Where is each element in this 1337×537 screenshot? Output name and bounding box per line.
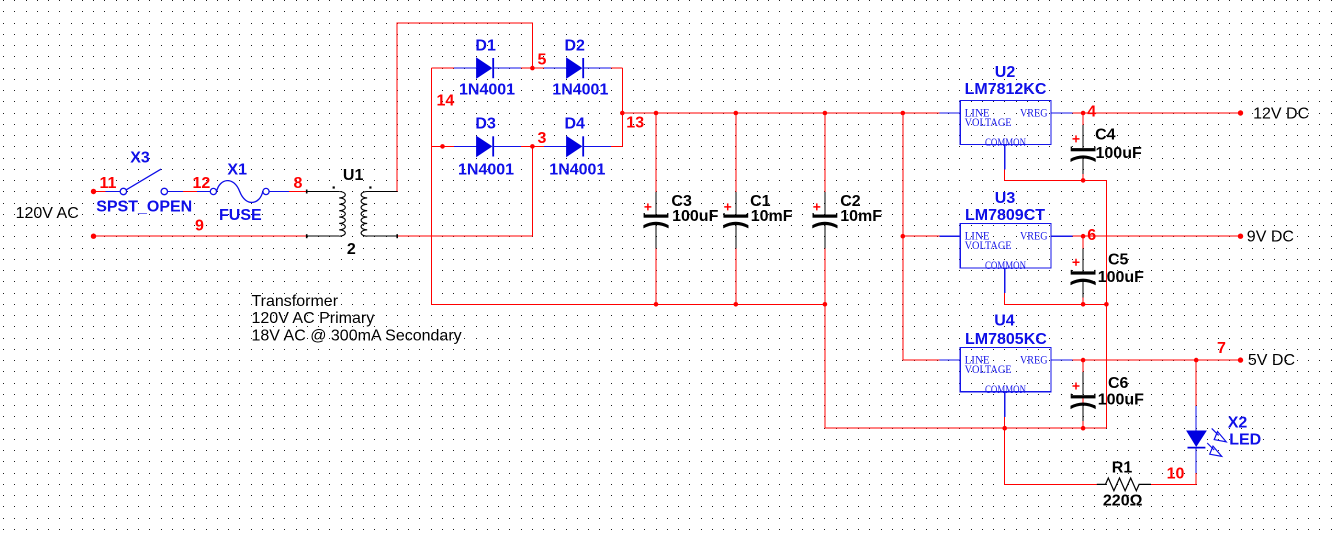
terminal: 120V AC hot bbox=[91, 189, 96, 194]
wire: transformer secondary bottom to node 3 bbox=[397, 146, 532, 236]
svg-text:12: 12 bbox=[193, 175, 211, 192]
svg-text:FUSE: FUSE bbox=[219, 207, 262, 224]
wire: U3 output to 9V DC terminal (net 6) bbox=[1073, 235, 1241, 237]
svg-text:U4: U4 bbox=[994, 313, 1015, 330]
svg-text:10mF: 10mF bbox=[840, 208, 882, 225]
regulator U2 LM7812KC box bbox=[940, 100, 1073, 169]
capacitor C6 100uF bbox=[1071, 372, 1096, 421]
terminal: 12V DC output bbox=[1238, 110, 1243, 115]
node 6 junction bbox=[1081, 234, 1086, 239]
wire: D3 anode stub red bbox=[431, 145, 454, 147]
diode D1 1N4001 bbox=[454, 57, 521, 79]
wire: R1 right to LED cathode (net 10) bbox=[1151, 473, 1196, 484]
capacitor C4 100uF bbox=[1071, 125, 1096, 174]
wire: D2 cathode to right vertical bbox=[611, 67, 622, 69]
wire: bottom ground run from C2 leg bbox=[825, 304, 1107, 428]
pin names of U4 bbox=[965, 355, 1048, 397]
node: C4 bottom junction bbox=[1081, 178, 1086, 183]
wire: switch to fuse bbox=[183, 191, 197, 193]
svg-text:14: 14 bbox=[437, 93, 455, 110]
wire: top DC bus node 13 to U2 input bbox=[622, 112, 939, 114]
svg-text:D3: D3 bbox=[475, 116, 496, 133]
wire: node 5 segment between D1 and D2 bbox=[521, 67, 544, 69]
wire: C6 top stub bbox=[1082, 360, 1084, 372]
wire: C2 bottom to ground bus bbox=[824, 248, 826, 304]
svg-text:VOLTAGE: VOLTAGE bbox=[965, 240, 1012, 252]
svg-text:R1: R1 bbox=[1112, 459, 1133, 476]
wire: U2 output to 12V DC terminal (net 4) bbox=[1073, 112, 1241, 114]
svg-text:LM7812KC: LM7812KC bbox=[965, 81, 1047, 98]
svg-text:D2: D2 bbox=[565, 38, 586, 55]
wire: C5 bottom stub bbox=[1082, 298, 1084, 305]
node: LED branch junction on 5V line bbox=[1194, 358, 1199, 363]
resistor R1 220 ohm bbox=[1097, 478, 1151, 491]
svg-text:COMMON: COMMON bbox=[985, 137, 1027, 149]
node: U4 common junction on ground run bbox=[1002, 426, 1007, 431]
node: C2 top junction bbox=[823, 111, 828, 116]
wire: node 3 segment between D3 and D4 bbox=[521, 145, 544, 147]
pin names of U3 bbox=[965, 231, 1048, 273]
svg-text:8: 8 bbox=[294, 175, 303, 192]
svg-text:VOLTAGE: VOLTAGE bbox=[965, 117, 1012, 129]
node 13 junction bbox=[620, 111, 625, 116]
wire: rail branch to U3 input bbox=[903, 235, 940, 237]
wire: C3 bottom to ground bus bbox=[655, 248, 657, 304]
svg-text:LED: LED bbox=[1229, 432, 1261, 449]
svg-text:220Ω: 220Ω bbox=[1103, 493, 1143, 510]
capacitor C5 100uF bbox=[1071, 248, 1096, 297]
svg-text:100uF: 100uF bbox=[1098, 269, 1144, 286]
svg-text:5V DC: 5V DC bbox=[1248, 352, 1295, 369]
svg-text:1N4001: 1N4001 bbox=[549, 162, 605, 179]
node: rail tee at top bus bbox=[901, 111, 906, 116]
svg-text:C6: C6 bbox=[1108, 375, 1129, 392]
wire: C4 bottom stub bbox=[1082, 174, 1084, 180]
svg-text:U3: U3 bbox=[995, 190, 1016, 207]
svg-text:9: 9 bbox=[195, 218, 204, 235]
diode D4 1N4001 bbox=[544, 136, 611, 158]
capacitor C2 10mF bbox=[812, 192, 837, 248]
node: C1 top junction bbox=[734, 111, 739, 116]
wire: D4 cathode to right vertical bbox=[611, 145, 622, 147]
svg-text:SPST_OPEN: SPST_OPEN bbox=[96, 199, 192, 216]
svg-text:D4: D4 bbox=[565, 116, 586, 133]
svg-text:4: 4 bbox=[1087, 104, 1096, 121]
pin names of U2 bbox=[965, 107, 1048, 149]
svg-text:1N4001: 1N4001 bbox=[459, 82, 515, 99]
node 4 junction bbox=[1081, 111, 1086, 116]
terminal: 9V DC output bbox=[1238, 234, 1243, 239]
svg-text:X1: X1 bbox=[227, 162, 247, 179]
svg-text:COMMON: COMMON bbox=[985, 260, 1027, 272]
wire: C5 top stub bbox=[1082, 236, 1084, 248]
wire: D1 anode stub red bbox=[431, 67, 454, 69]
svg-text:13: 13 bbox=[626, 114, 644, 131]
capacitor C1 10mF bbox=[723, 192, 748, 248]
svg-text:100uF: 100uF bbox=[1098, 391, 1144, 408]
svg-text:COMMON: COMMON bbox=[985, 384, 1027, 396]
node: rail tee at U3 input bbox=[901, 234, 906, 239]
diode D2 1N4001 bbox=[544, 57, 611, 79]
svg-text:1N4001: 1N4001 bbox=[458, 162, 514, 179]
svg-text:VOLTAGE: VOLTAGE bbox=[965, 364, 1012, 376]
wire: bridge right vertical through node 13 bbox=[621, 68, 623, 146]
svg-text:6: 6 bbox=[1087, 227, 1096, 244]
svg-text:C5: C5 bbox=[1108, 251, 1129, 268]
wire: U4 output to 5V DC terminal (net 7) bbox=[1073, 359, 1241, 361]
svg-text:Transformer: Transformer bbox=[252, 293, 339, 310]
node: C1 bottom junction bbox=[734, 302, 739, 307]
wire: AC hot from source terminal to switch bbox=[94, 191, 106, 193]
svg-text:2: 2 bbox=[347, 241, 356, 258]
node 3 junction bbox=[530, 144, 535, 149]
wire: U2 common run and ground vertical bbox=[1005, 170, 1107, 429]
node: C3 top junction bbox=[654, 111, 659, 116]
wire: C1 top drop bbox=[735, 113, 737, 192]
node: C2 bottom junction bbox=[823, 302, 828, 307]
wire: U3 common run to ground vertical bbox=[1005, 293, 1107, 304]
svg-text:VREG: VREG bbox=[1020, 355, 1048, 367]
wire: fuse to transformer primary top (net 8) bbox=[289, 191, 307, 193]
wire: transformer secondary top up and over to node 5 bbox=[397, 23, 532, 191]
svg-text:3: 3 bbox=[538, 130, 547, 147]
svg-text:C4: C4 bbox=[1095, 126, 1116, 143]
regulator U4 LM7805KC box bbox=[940, 348, 1073, 417]
node: C3 bottom junction bbox=[654, 302, 659, 307]
wire: C6 bottom stub bbox=[1082, 398, 1084, 428]
svg-text:7: 7 bbox=[1217, 340, 1226, 357]
wire: U4 common stub to bottom ground run bbox=[1004, 417, 1006, 428]
svg-text:X2: X2 bbox=[1228, 415, 1248, 432]
svg-text:U1: U1 bbox=[343, 167, 364, 184]
switch X3 SPST_OPEN bbox=[105, 169, 182, 195]
node 7 junction bbox=[1081, 358, 1086, 363]
svg-text:11: 11 bbox=[100, 175, 117, 192]
svg-text:18V AC @ 300mA Secondary: 18V AC @ 300mA Secondary bbox=[252, 328, 462, 345]
svg-text:LM7805KC: LM7805KC bbox=[965, 331, 1047, 348]
svg-text:100uF: 100uF bbox=[672, 208, 718, 225]
wire: node 14 vertical and mid ground bus to C2 bbox=[431, 68, 825, 304]
terminal: 120V AC neutral bbox=[91, 234, 96, 239]
node: C6 bottom junction bbox=[1081, 426, 1086, 431]
svg-text:VREG: VREG bbox=[1020, 107, 1048, 119]
svg-text:10: 10 bbox=[1167, 466, 1185, 483]
svg-text:LM7809CT: LM7809CT bbox=[965, 207, 1045, 224]
wire: AC neutral bottom run (net 9) bbox=[94, 235, 307, 237]
node: junction on D3 anode wire bbox=[440, 144, 445, 149]
wire: R1 left leg from ground run bbox=[1005, 428, 1097, 484]
svg-text:120V AC Primary: 120V AC Primary bbox=[252, 310, 375, 327]
LED X2 bbox=[1186, 406, 1226, 473]
regulator U3 LM7809CT box bbox=[940, 224, 1073, 293]
wire: C2 top drop bbox=[824, 113, 826, 192]
svg-text:100uF: 100uF bbox=[1096, 145, 1142, 162]
transformer U1 bbox=[307, 186, 398, 238]
svg-text:120V AC: 120V AC bbox=[16, 205, 79, 222]
diode D3 1N4001 bbox=[454, 136, 521, 158]
wire: C4 top stub bbox=[1082, 113, 1084, 125]
svg-text:U2: U2 bbox=[995, 64, 1016, 81]
wire: LED anode drop from 5V line bbox=[1195, 360, 1197, 406]
node: C5 bottom junction bbox=[1081, 302, 1086, 307]
svg-text:10mF: 10mF bbox=[751, 208, 793, 225]
svg-text:VREG: VREG bbox=[1020, 231, 1048, 243]
svg-text:1N4001: 1N4001 bbox=[552, 82, 608, 99]
node 5 junction bbox=[530, 66, 535, 71]
fuse X1 bbox=[197, 181, 289, 203]
svg-text:D1: D1 bbox=[475, 38, 496, 55]
wire: C3 top drop bbox=[655, 113, 657, 192]
wire: C1 bottom to ground bus bbox=[735, 248, 737, 304]
svg-text:X3: X3 bbox=[130, 150, 150, 167]
svg-text:9V DC: 9V DC bbox=[1247, 229, 1294, 246]
wire: input rail down to U4 input bbox=[903, 113, 940, 360]
terminal: 5V DC output bbox=[1238, 357, 1243, 362]
capacitor C3 100uF bbox=[643, 192, 668, 248]
svg-text:5: 5 bbox=[538, 52, 547, 69]
node: U3 common tee on ground vertical bbox=[1104, 302, 1109, 307]
svg-text:12V DC: 12V DC bbox=[1253, 106, 1309, 123]
